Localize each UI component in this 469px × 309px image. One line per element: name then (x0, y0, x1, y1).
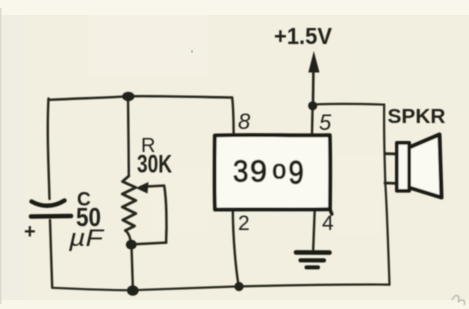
svg-text:SPKR: SPKR (388, 106, 447, 128)
svg-text:µF: µF (68, 225, 105, 252)
svg-text:+1.5V: +1.5V (274, 23, 333, 49)
svg-text:9: 9 (250, 154, 267, 189)
svg-text:0: 0 (273, 161, 287, 184)
svg-text:30K: 30K (137, 151, 172, 179)
svg-text:3: 3 (233, 154, 248, 189)
svg-text:9: 9 (289, 155, 304, 191)
svg-text:8: 8 (238, 109, 251, 134)
svg-text:5: 5 (319, 110, 332, 135)
svg-text:2: 2 (238, 212, 250, 235)
svg-text:+: + (24, 221, 36, 243)
svg-text:4: 4 (322, 212, 334, 235)
